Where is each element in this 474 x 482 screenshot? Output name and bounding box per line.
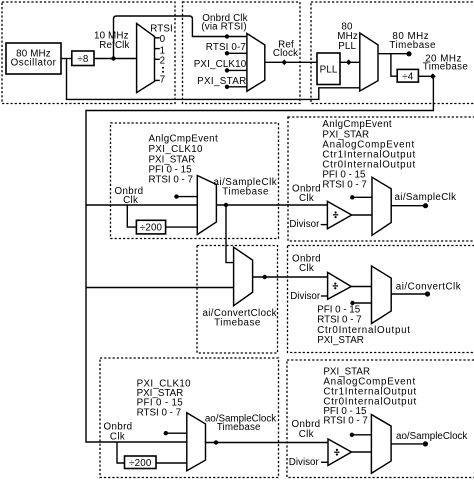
svg-text:Divisor: Divisor [289, 457, 320, 468]
dashed box: ai/ConvertClock Timebase section [197, 246, 278, 354]
RTSI output tick 7 [155, 79, 160, 81]
divider triangle convert [328, 272, 352, 299]
wire 20MHz timebase down-left rail to Onbrd Clk rail [86, 76, 433, 442]
dashed box: Ref Clock mux section [183, 2, 301, 104]
mux ai/ConvertClk [372, 266, 392, 324]
RTSI output tick 2 [155, 58, 160, 60]
svg-text:÷200: ÷200 [129, 458, 152, 469]
mux ao/SampleClock Timebase [187, 413, 206, 471]
svg-text:Timebase: Timebase [389, 40, 436, 51]
RTSI output tick 0 [155, 37, 160, 39]
svg-text:Timebase: Timebase [423, 62, 469, 73]
wire Ref Clock mux out to PLL [265, 61, 317, 63]
svg-text:ai/ConvertClk: ai/ConvertClk [396, 281, 461, 292]
svg-text:(via RTSI): (via RTSI) [201, 22, 246, 33]
node ao/SampleClock [423, 441, 428, 446]
divider triangle ao [328, 439, 352, 466]
wire mux out [391, 443, 425, 445]
svg-text:Divisor: Divisor [290, 291, 321, 302]
svg-text:Clk: Clk [299, 193, 314, 204]
svg-text:RefClk: RefClk [99, 40, 129, 51]
PLL box [317, 53, 340, 85]
stub wire other sources [166, 432, 187, 434]
wire osc to div8 [61, 58, 72, 60]
svg-text:ai/SampleClk: ai/SampleClk [395, 192, 457, 203]
dashed box: PLL section [311, 2, 474, 104]
stub wire other sources [177, 196, 198, 198]
dashed box: ao/SampleClock section [287, 360, 474, 478]
oscillator box [6, 43, 61, 74]
wire branch down to div200 [117, 442, 125, 463]
svg-text:PXI_STAR: PXI_STAR [317, 335, 364, 346]
svg-text:Timebase: Timebase [222, 187, 269, 198]
svg-text:RTSI: RTSI [150, 24, 173, 35]
wire PLL out to 80MHz mux [340, 61, 360, 63]
wire div200 out to mux [166, 226, 198, 228]
node ai/SampleClk [423, 203, 428, 208]
wire 80MHz direct to PLL-bypass mux [67, 59, 360, 100]
node ai/ConvertClock Timebase junction [263, 275, 267, 279]
wire Onbrd Clk into ai timebase mux [86, 204, 197, 206]
wire branch to div4 [391, 54, 397, 76]
wire div200 out to mux [156, 462, 187, 464]
svg-text:7: 7 [160, 75, 166, 86]
mux ai/SampleClk Timebase [197, 176, 216, 235]
mux ao/SampleClock [371, 415, 391, 474]
wire divider out to mux [352, 214, 372, 216]
stub wire other sources [352, 196, 372, 198]
svg-text:Oscillator: Oscillator [11, 58, 57, 69]
dashed box: ai/SampleClk Timebase section [111, 123, 279, 239]
svg-text:Clk: Clk [123, 195, 138, 206]
wire Divisor to divider [321, 461, 328, 463]
wire mux out across to ao divider [206, 442, 329, 444]
svg-text:Clk: Clk [299, 429, 314, 440]
divide-by-200 box ao [125, 456, 157, 469]
mux ai/SampleClk [372, 177, 391, 235]
wire div4 out [418, 75, 431, 77]
wire mux out [391, 205, 425, 207]
stub wire other sources [353, 302, 372, 304]
dashed box: ao/SampleClock Timebase section [100, 358, 279, 478]
node ai/SampleClk Timebase junction [224, 203, 228, 207]
svg-text:Clk: Clk [299, 263, 314, 274]
mux ai/ConvertClock Timebase [234, 247, 253, 306]
wire mux out [391, 293, 427, 295]
svg-text:PXI_STAR: PXI_STAR [197, 76, 246, 87]
svg-text:ao/SampleClock: ao/SampleClock [396, 431, 467, 442]
wire branch down to div200 [127, 205, 136, 227]
svg-text:Clk: Clk [110, 432, 125, 443]
node 20 MHz Timebase [430, 73, 436, 79]
svg-text:PXI_CLK10: PXI_CLK10 [149, 144, 204, 155]
svg-text:RTSI 0 - 7: RTSI 0 - 7 [323, 416, 367, 427]
svg-text:AnlgCmpEvent: AnlgCmpEvent [149, 134, 219, 145]
divide-by-8 box [72, 51, 94, 66]
wire 20MHz rail into convert timebase mux [86, 287, 234, 289]
wire Divisor to divider [321, 224, 328, 226]
divider triangle ai [327, 201, 351, 228]
node ao/SampleClock Timebase junction [214, 440, 218, 444]
svg-text:Timebase: Timebase [214, 318, 261, 329]
wire mux out to ConvertClk divider [253, 276, 328, 278]
wire div8 to RTSI mux [94, 58, 137, 60]
dashed box: oscillator/RTSI section [2, 2, 175, 104]
svg-text:÷4: ÷4 [402, 71, 414, 82]
divide-by-200 box [136, 220, 165, 234]
wire divider out to mux [352, 451, 372, 453]
mux RTSI output [137, 23, 155, 92]
svg-text:PLL: PLL [320, 64, 338, 75]
svg-text:RTSI 0 - 7: RTSI 0 - 7 [322, 180, 366, 191]
svg-text:RTSI 0 - 7: RTSI 0 - 7 [137, 408, 181, 419]
svg-text:Divisor: Divisor [289, 219, 320, 230]
node ai/ConvertClk [425, 291, 430, 296]
svg-text:Timebase: Timebase [217, 422, 261, 433]
ellipsis dots [162, 67, 164, 69]
svg-text:0: 0 [160, 34, 166, 45]
wire RefClk riser to Ref Clock mux input [114, 16, 247, 59]
wire Divisor to divider [321, 295, 328, 297]
node Onbrd Clk via RTSI [225, 34, 229, 38]
wire divider out to mux [351, 286, 371, 288]
node PLL output [346, 59, 352, 65]
mux Ref Clock select [247, 34, 265, 92]
divide-by-4 box [397, 69, 418, 82]
node 10 MHz RefClk [111, 56, 115, 60]
node 80 MHz Timebase [406, 51, 411, 56]
svg-text:÷8: ÷8 [77, 54, 89, 65]
wire mux out to 80 MHz Timebase [378, 53, 409, 55]
svg-text:2: 2 [160, 56, 166, 67]
node Ref Clock [282, 60, 288, 66]
RTSI output tick 1 [155, 48, 160, 50]
svg-text:AnlgCmpEvent: AnlgCmpEvent [322, 119, 392, 130]
stub wire other sources [352, 434, 372, 436]
mux 80 MHz PLL select [360, 33, 378, 91]
svg-text:PXI_CLK10: PXI_CLK10 [194, 59, 247, 70]
svg-text:RTSI 0 - 7: RTSI 0 - 7 [149, 175, 193, 186]
wire mux out across to ai/SampleClk divider [216, 204, 327, 206]
wire branch down to ConvertClock timebase mux [226, 205, 234, 263]
dashed box: ai/SampleClk section [288, 117, 474, 241]
svg-text:Clock: Clock [273, 48, 298, 59]
svg-text:PLL: PLL [338, 41, 356, 52]
dashed box: ai/ConvertClk section [288, 246, 474, 353]
svg-text:÷200: ÷200 [140, 223, 163, 234]
